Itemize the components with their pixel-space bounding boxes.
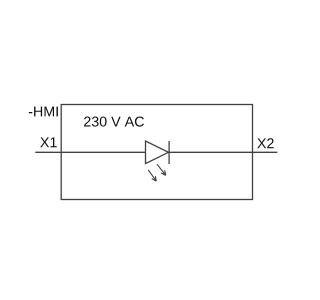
label -HMI (29, 107, 58, 117)
wire X1 lead (35, 151, 145, 153)
wire X2 lead (169, 151, 277, 153)
LED D1 cathode bar (168, 141, 170, 164)
LED emission arrow 2 (157, 164, 166, 175)
LED D1 triangle (anode) (146, 141, 169, 164)
pin label X2 (257, 138, 274, 148)
value label 230 V AC (84, 117, 144, 127)
pin label X1 (40, 137, 57, 147)
LED emission arrow 1 (148, 170, 156, 181)
component box -HMI (61, 105, 252, 200)
